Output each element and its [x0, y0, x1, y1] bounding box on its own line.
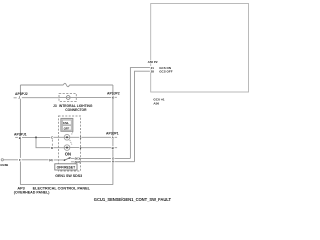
wire through lamp: [59, 96, 76, 98]
svg-text:A56: A56: [153, 101, 159, 105]
wire top loop horizontal right: [70, 84, 113, 86]
svg-text:K: K: [112, 95, 115, 99]
svg-text:(NC): (NC): [75, 158, 80, 161]
wire top loop horizontal: [20, 84, 63, 86]
svg-text:(OVERHEAD PANEL): (OVERHEAD PANEL): [14, 191, 50, 195]
wire B row tick: [15, 136, 18, 138]
svg-text:OFF/RESET: OFF/RESET: [57, 166, 76, 170]
lamp circle J3: [66, 96, 70, 100]
contact arrowhead: [68, 157, 70, 159]
wire NC to connector G to GCB ON: [79, 157, 130, 159]
switch GEN1 SW dashed box: [59, 116, 81, 171]
wire pin28 GCS OFF: [135, 71, 151, 162]
junction dot B/C/D: [35, 136, 37, 138]
svg-text:AP3PJ2: AP3PJ2: [15, 92, 28, 96]
wire B row to junction and C: [22, 136, 50, 138]
switch moving contact arm: [65, 158, 69, 160]
switch pole2 center dot: [66, 147, 68, 149]
wire through pole2: [64, 147, 70, 149]
wire lighting row: [22, 96, 117, 98]
wire NO to connector H to GCB OFF: [79, 161, 135, 163]
svg-text:H: H: [112, 160, 114, 164]
wire through pole1: [64, 136, 70, 138]
GCU U1 box: [151, 4, 249, 93]
connector dashes C-D: [51, 140, 53, 146]
wire top loop right vertical: [112, 85, 114, 185]
svg-text:(H): (H): [49, 158, 53, 162]
wire D to switch pole2: [53, 147, 64, 149]
svg-text:A: A: [112, 136, 115, 140]
wire GCU1_SENSE bottom run: [20, 184, 113, 186]
label A56 P2: [147, 60, 158, 64]
svg-text:F: F: [19, 158, 21, 162]
svg-text:GCU1_SENSE/GEN1_CONT_SW_FAULT: GCU1_SENSE/GEN1_CONT_SW_FAULT: [94, 197, 172, 202]
wire NO stub: [71, 161, 74, 163]
svg-text:ON: ON: [65, 151, 71, 156]
svg-text:GEN1 SW SDS3: GEN1 SW SDS3: [55, 174, 82, 178]
wire pin21 GCS ON: [130, 68, 150, 159]
svg-text:J3: J3: [53, 104, 57, 108]
switch moving contact pivot: [64, 159, 66, 161]
svg-text:(NO): (NO): [75, 161, 80, 164]
legend OFF cell: [62, 126, 71, 131]
svg-text:FAIL: FAIL: [63, 121, 69, 125]
wire F common row: [3, 159, 63, 161]
svg-text:B: B: [112, 146, 115, 150]
switch pole2 circle: [64, 145, 70, 151]
pin 21: [150, 66, 154, 70]
svg-text:OFF: OFF: [64, 126, 70, 130]
wire lighting row left tick: [14, 97, 17, 99]
svg-text:A56 P2: A56 P2: [148, 60, 158, 64]
legend FAIL/OFF outer box: [61, 118, 73, 131]
connector J3 dashed box: [59, 93, 76, 101]
wire pole2 to connector B: [70, 147, 118, 149]
wire C-D jumper: [36, 137, 50, 147]
wire NC stub: [71, 157, 74, 159]
wire break squiggle: [63, 83, 69, 86]
svg-text:2: 2: [80, 146, 82, 150]
svg-text:28: 28: [151, 69, 155, 73]
OFF/RESET box: [55, 164, 77, 170]
wire top loop left vertical: [19, 85, 21, 185]
svg-text:CONNECTOR: CONNECTOR: [65, 108, 87, 112]
switch pole1 center dot: [66, 136, 68, 138]
legend FAIL cell: [62, 120, 71, 125]
svg-text:GCS OFF: GCS OFF: [159, 69, 173, 73]
wire C to switch pole1: [53, 136, 64, 138]
terminal GS/8B: [1, 159, 3, 161]
wire pole1 to connector A: [70, 136, 118, 138]
switch pole1 circle: [64, 135, 70, 141]
lamp J3 center dot: [68, 97, 69, 98]
mechanical linkage dashes: [70, 132, 73, 145]
pin 28: [150, 69, 154, 73]
svg-text:GS/8B: GS/8B: [0, 163, 8, 167]
svg-text:1: 1: [80, 136, 82, 140]
